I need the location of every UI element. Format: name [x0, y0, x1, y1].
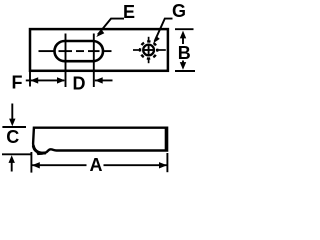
side view bottom-left heavy dip stroke — [33, 146, 46, 154]
dimension A left arrowhead — [32, 162, 40, 168]
svg-text:D: D — [73, 74, 86, 94]
leader line E — [98, 19, 124, 35]
slot right vertical centerline — [93, 34, 95, 88]
hole G outer thread circle (broken) — [140, 41, 157, 58]
hole G inner circle — [143, 45, 154, 56]
dimension D tail line — [95, 79, 113, 81]
dimension A left extension line — [30, 152, 32, 173]
dimension F left arrowhead — [30, 77, 38, 83]
dimension B top extension line — [175, 28, 194, 30]
dimension D right arrow — [95, 77, 103, 83]
side view right edge thickening — [165, 128, 167, 150]
dimension C bottom extension line — [2, 153, 31, 155]
hole G center cross — [144, 45, 154, 55]
top view plate outline — [30, 29, 168, 71]
svg-text:C: C — [6, 127, 19, 147]
side view bottom-left tail point — [35, 150, 43, 155]
dimension A line — [32, 164, 167, 166]
svg-text:A: A — [90, 155, 103, 175]
dimension B bottom extension line — [175, 70, 195, 72]
dimension C top extension line — [2, 126, 26, 128]
dimension B down arrow — [180, 61, 186, 70]
dimension C down arrow — [9, 104, 15, 127]
svg-text:G: G — [172, 1, 186, 21]
slot (obround hole) — [55, 41, 104, 61]
dimension C up arrow — [9, 155, 15, 171]
svg-text:E: E — [123, 2, 135, 22]
svg-text:F: F — [12, 73, 23, 93]
slot horizontal centerline — [39, 50, 112, 52]
dimension A right extension line — [166, 153, 168, 172]
arrowhead G — [153, 36, 160, 43]
dimension A right arrowhead — [159, 162, 167, 168]
dimension B up arrow — [180, 31, 186, 44]
leader line G — [155, 19, 173, 42]
slot left vertical centerline — [65, 34, 67, 88]
arrowhead E — [96, 29, 104, 37]
hole G centerline stubs — [133, 37, 166, 63]
side view outline — [33, 128, 167, 153]
dimension F left extension line (plate left edge extended) — [29, 72, 31, 87]
dimension F right arrowhead — [57, 77, 65, 83]
svg-text:B: B — [178, 43, 191, 63]
dimension F line — [26, 79, 65, 81]
